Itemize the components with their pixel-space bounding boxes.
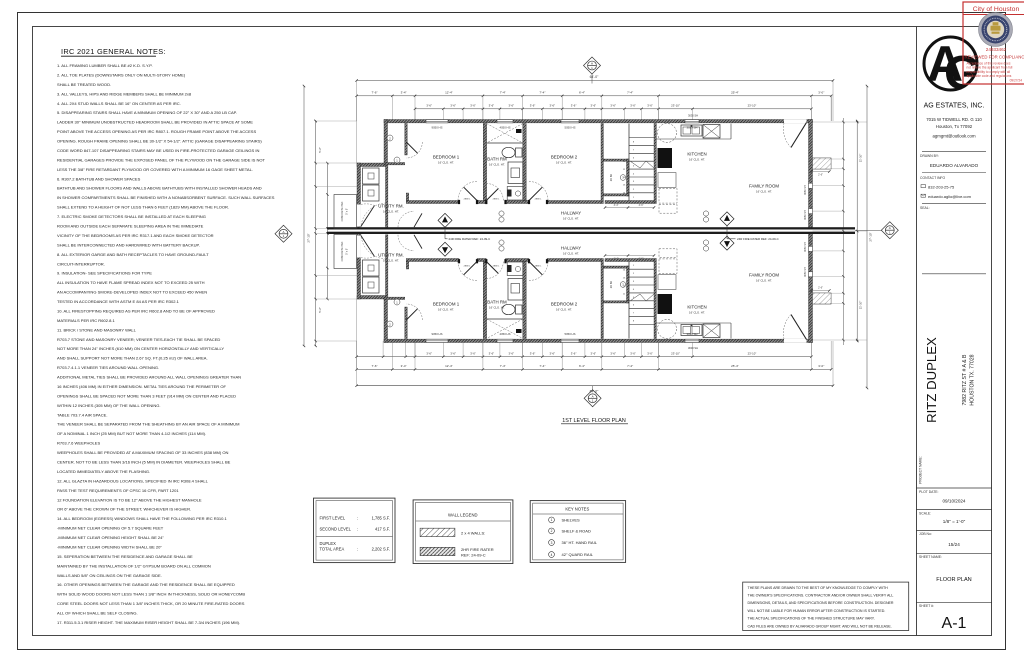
svg-text:R703.7 STONE AND MASONRY VENEE: R703.7 STONE AND MASONRY VENEER; VENEER … (57, 337, 220, 342)
svg-text:2R 6R: 2R 6R (609, 174, 613, 181)
svg-text:MAINTAINED BY THE INSTALLATION: MAINTAINED BY THE INSTALLATION OF 1/2" G… (57, 563, 211, 568)
svg-text:R703.7.4.1.1 VENEER TIES AROUN: R703.7.4.1.1 VENEER TIES AROUND WALL OPE… (57, 365, 159, 370)
svg-text:BEDROOM 2: BEDROOM 2 (551, 155, 578, 160)
svg-text:25'-4": 25'-4" (731, 91, 739, 95)
svg-text:3'-6": 3'-6" (508, 352, 514, 356)
svg-text:REF: 24-09-C: REF: 24-09-C (461, 552, 486, 557)
svg-text:HALLWAY: HALLWAY (561, 246, 581, 251)
svg-text:7'-4": 7'-4" (539, 91, 545, 95)
svg-text:2. ALL TOE PLATES (DOWNSTAIRS: 2. ALL TOE PLATES (DOWNSTAIRS ONLY ON MU… (57, 72, 186, 77)
svg-text:OF A NOMINAL 1 INCH (25 MM) BU: OF A NOMINAL 1 INCH (25 MM) BUT NOT MORE… (57, 431, 206, 436)
svg-text:16' CLG. HT.: 16' CLG. HT. (383, 259, 399, 263)
svg-text:3'-6": 3'-6" (647, 352, 653, 356)
svg-text:3: 3 (551, 541, 553, 545)
svg-text:23'-10": 23'-10" (748, 352, 757, 356)
svg-text:applicable code and regulation: applicable code and regulations (967, 74, 1012, 78)
svg-text:3'-6": 3'-6" (639, 204, 644, 207)
svg-text:27'-10": 27'-10" (869, 232, 873, 241)
svg-text:16' CLG. HT.: 16' CLG. HT. (438, 308, 454, 312)
svg-text:27'-10": 27'-10" (307, 233, 311, 242)
svg-text:5050 HS: 5050 HS (565, 332, 576, 336)
svg-text:25'-4": 25'-4" (731, 364, 739, 368)
svg-text:2868 L: 2868 L (535, 266, 542, 268)
svg-text:THE OWNER'S SPECIFICATIONS. CO: THE OWNER'S SPECIFICATIONS. CONTRACTOR A… (748, 594, 894, 598)
svg-text:2868 L: 2868 L (493, 266, 500, 268)
svg-text:7'-4": 7'-4" (500, 91, 506, 95)
svg-text:4050 HS: 4050 HS (500, 125, 511, 129)
svg-text:15. SEPERATION BETWEEN THE RES: 15. SEPERATION BETWEEN THE RESIDENCE AND… (57, 554, 193, 559)
svg-text:eduardo.aglio@live.com: eduardo.aglio@live.com (928, 194, 972, 199)
svg-text:BEDROOM 1: BEDROOM 1 (433, 155, 460, 160)
svg-text:23'-10": 23'-10" (671, 352, 680, 356)
svg-text:09/10/2024: 09/10/2024 (943, 499, 966, 504)
svg-text:3050 SH: 3050 SH (804, 242, 807, 252)
svg-text:15/24: 15/24 (948, 542, 960, 547)
svg-text:16' CLG. HT.: 16' CLG. HT. (756, 190, 772, 194)
svg-text:23'-10": 23'-10" (748, 104, 757, 108)
svg-text:SHALL BE INTERCONNECTED AND HA: SHALL BE INTERCONNECTED AND HARDWIRED WI… (57, 242, 200, 247)
svg-text:A: A (592, 394, 594, 398)
svg-text:3'-6": 3'-6" (489, 104, 495, 108)
svg-text:16' CLG. HT.: 16' CLG. HT. (489, 163, 505, 167)
svg-text:JOB No:: JOB No: (919, 532, 932, 536)
svg-text:BATH RM: BATH RM (487, 157, 507, 162)
svg-text:5'-2": 5'-2" (318, 147, 322, 153)
svg-text:16 INCHES (406 MM) IN EITHER D: 16 INCHES (406 MM) IN EITHER DIMENSION. … (57, 384, 226, 389)
svg-text:2: 2 (551, 529, 553, 533)
svg-text:3'-6": 3'-6" (571, 104, 577, 108)
svg-text:City of Houston: City of Houston (973, 6, 1020, 13)
svg-text:3'-6": 3'-6" (571, 352, 577, 356)
svg-text:1ST LEVEL FLOOR PLAN: 1ST LEVEL FLOOR PLAN (562, 418, 626, 424)
svg-text:1. ALL FRAMING LUMBER SHALL BE: 1. ALL FRAMING LUMBER SHALL BE #2 K.D. S… (57, 63, 153, 68)
svg-text:3'-6": 3'-6" (450, 352, 456, 356)
svg-text:3. ALL VALLEYS, HIPS AND RIDGE: 3. ALL VALLEYS, HIPS AND RIDGE MEMBERS S… (57, 91, 192, 96)
svg-text:AG ESTATES, INC.: AG ESTATES, INC. (924, 103, 985, 110)
svg-text:2 x 4 WALLS:: 2 x 4 WALLS: (461, 531, 485, 536)
svg-text:ALL INSULATION TO HAVE FLAME S: ALL INSULATION TO HAVE FLAME SPREAD INDE… (57, 280, 205, 285)
svg-text:-MINIMUM NET CLEAR OPENING HEI: -MINIMUM NET CLEAR OPENING HEIGHT SHALL … (57, 535, 164, 540)
svg-text:PASS THE TEST REQUIREMENTS OF: PASS THE TEST REQUIREMENTS OF CPSC 16 CF… (57, 488, 179, 493)
svg-text:ALL OF WHICH SHALL BE SELF CLO: ALL OF WHICH SHALL BE SELF CLOSING. (57, 611, 138, 616)
svg-text:DIMENSIONS, DETAILS, AND SPECI: DIMENSIONS, DETAILS, AND SPECIFICATIONS … (748, 601, 894, 605)
svg-text:2,202 S.F.: 2,202 S.F. (372, 547, 390, 552)
svg-text:SHALL BE TREATED WOOD.: SHALL BE TREATED WOOD. (57, 82, 111, 87)
svg-text:2868 L: 2868 L (464, 199, 471, 201)
svg-text:3'-6": 3'-6" (550, 104, 556, 108)
svg-text:10. ALL FIRESTOPPING REQUIRED: 10. ALL FIRESTOPPING REQUIRED AS PER IRC… (57, 308, 215, 313)
svg-text:3'-6": 3'-6" (489, 352, 495, 356)
svg-text:SHEET NAME:: SHEET NAME: (919, 555, 942, 559)
svg-text:LOCATED IMMEDIATELY ABOVE THE: LOCATED IMMEDIATELY ABOVE THE FLASHING. (57, 469, 150, 474)
svg-text:CODE WORD 847-107 DISAPPEARING: CODE WORD 847-107 DISAPPEARING STAIRS MA… (57, 148, 259, 153)
svg-text:THE VENEER SHALL BE SEPARATED: THE VENEER SHALL BE SEPARATED FROM THE S… (57, 422, 240, 427)
svg-text:Houston, Tx 77092: Houston, Tx 77092 (936, 124, 973, 129)
svg-text:36" HT. HAND RAIL: 36" HT. HAND RAIL (562, 540, 598, 545)
svg-text:ROOM AND OUTSIDE EACH SEPARATE: ROOM AND OUTSIDE EACH SEPARATE SLEEPING … (57, 223, 204, 228)
svg-text:11. BRICK / STONE AND MASONRY: 11. BRICK / STONE AND MASONRY WALL (57, 327, 137, 332)
svg-text:3'-6": 3'-6" (426, 352, 432, 356)
svg-text:CONCRETE PAD: CONCRETE PAD (341, 201, 344, 221)
svg-text:-MINIMUM NET CLEAR OPENING WID: -MINIMUM NET CLEAR OPENING WIDTH SHALL B… (57, 544, 162, 549)
svg-text:5' x 5': 5' x 5' (346, 208, 349, 215)
svg-text:7. ELECTRIC SMOKE DETECTORS SH: 7. ELECTRIC SMOKE DETECTORS SHALL BE INS… (57, 214, 206, 219)
svg-text:24R FIRE RATER REF: 24-09-C: 24R FIRE RATER REF: 24-09-C (737, 237, 779, 241)
svg-text:3'-6": 3'-6" (426, 104, 432, 108)
svg-text:4050 HS: 4050 HS (500, 332, 511, 336)
svg-text:CIRCUIT-INTERRUPTOR.: CIRCUIT-INTERRUPTOR. (57, 261, 105, 266)
svg-text:OR 6" ABOVE THE CROWN OF THE S: OR 6" ABOVE THE CROWN OF THE STREET, WHI… (57, 507, 191, 512)
svg-text:7'-6": 7'-6" (371, 364, 377, 368)
svg-text:7'-4": 7'-4" (539, 364, 545, 368)
svg-text:12 FOUNDATION ELEVATION IS TO: 12 FOUNDATION ELEVATION IS TO BE 12" ABO… (57, 497, 202, 502)
svg-text:THESE PLANS ARE DRAWN TO THE B: THESE PLANS ARE DRAWN TO THE BEST OF MY … (748, 586, 889, 590)
svg-text:FAMILY ROOM: FAMILY ROOM (749, 273, 779, 278)
svg-text:CONTACT INFO: CONTACT INFO (920, 176, 945, 180)
svg-text:OPENINGS SHALL BE SPACED NOT M: OPENINGS SHALL BE SPACED NOT MORE THAN 3… (57, 393, 236, 398)
svg-text:ADDITIONAL METAL TIES SHALL BE: ADDITIONAL METAL TIES SHALL BE PROVIDED … (57, 375, 241, 380)
svg-text:12'-4": 12'-4" (445, 364, 453, 368)
svg-text:3'-0": 3'-0" (818, 91, 824, 95)
svg-text:A: A (282, 230, 284, 234)
svg-text:3'-6": 3'-6" (630, 104, 636, 108)
svg-text:16' CLG. HT.: 16' CLG. HT. (556, 308, 572, 312)
svg-text:KEY NOTES: KEY NOTES (565, 506, 589, 511)
svg-text:SEAL:: SEAL: (920, 206, 930, 210)
svg-text:EDUARDO ALVARADO: EDUARDO ALVARADO (930, 163, 979, 168)
svg-text:24933462: 24933462 (986, 47, 1007, 52)
svg-text:3030 SH: 3030 SH (688, 346, 698, 350)
svg-text:3'-6": 3'-6" (508, 104, 514, 108)
svg-text:3'-6": 3'-6" (639, 258, 644, 261)
svg-text:WEEPHOLES SHALL BE PROVIDED AT: WEEPHOLES SHALL BE PROVIDED AT A MAXIMUM… (57, 450, 229, 455)
svg-text:3'-6": 3'-6" (610, 104, 616, 108)
svg-text:2HR FIRE RATER: 2HR FIRE RATER (461, 547, 494, 552)
svg-text:FLOOR PLAN: FLOOR PLAN (936, 577, 971, 583)
svg-text:RESIDENTIAL GARAGES PROVIDE TH: RESIDENTIAL GARAGES PROVIDE THE EXPOSED … (57, 157, 266, 162)
svg-text:14. ALL BEDROOM (EGRESS) WINDO: 14. ALL BEDROOM (EGRESS) WINDOWS SHALL H… (57, 516, 228, 521)
svg-text:POINT ABOVE THE ACCESS OPENING: POINT ABOVE THE ACCESS OPENING AS PER IR… (57, 129, 256, 134)
svg-text:agmgmt@outlook.com: agmgmt@outlook.com (932, 133, 975, 138)
svg-text:SHALL EXTEND TO A HEIGHT OF NO: SHALL EXTEND TO A HEIGHT OF NOT LESS THA… (57, 205, 229, 210)
svg-text:2R 6R: 2R 6R (609, 281, 613, 288)
svg-text:THE ACTUAL SPECIFICATIONS OF T: THE ACTUAL SPECIFICATIONS OF THE FINISHE… (748, 617, 875, 621)
svg-text:3'-6": 3'-6" (591, 352, 597, 356)
svg-text:LESS THE 3/8" FIRE RETARDANT P: LESS THE 3/8" FIRE RETARDANT PLYWOOD OR … (57, 167, 253, 172)
svg-text:7'-6": 7'-6" (371, 91, 377, 95)
svg-text:23'-10": 23'-10" (671, 104, 680, 108)
svg-text:4. ALL 2X4 STUD WALLS SHALL BE: 4. ALL 2X4 STUD WALLS SHALL BE 16" ON CE… (57, 101, 181, 106)
svg-text:3050 SH: 3050 SH (804, 267, 807, 277)
svg-text:UTILITY RM.: UTILITY RM. (378, 253, 404, 258)
svg-text:3'-6": 3'-6" (630, 352, 636, 356)
svg-text:KITCHEN: KITCHEN (687, 152, 706, 157)
svg-text:4: 4 (551, 553, 553, 557)
svg-text:2'-6": 2'-6" (818, 173, 823, 176)
svg-text:11'-10": 11'-10" (859, 301, 863, 309)
svg-text:2868 L: 2868 L (535, 199, 542, 201)
svg-text:RITZ DUPLEX: RITZ DUPLEX (924, 337, 939, 423)
svg-text:3'-4": 3'-4" (401, 364, 407, 368)
svg-text:3'-4": 3'-4" (614, 204, 619, 207)
svg-text:REVIEWED FOR COMPLIANCE: REVIEWED FOR COMPLIANCE (965, 54, 1024, 59)
svg-text:16' CLG. HT.: 16' CLG. HT. (689, 158, 705, 162)
svg-text:WITH SOLID WOOD DOORS NOT LESS: WITH SOLID WOOD DOORS NOT LESS THAN 1 3/… (57, 592, 245, 597)
svg-text::: : (357, 527, 358, 532)
svg-text:9050 HS: 9050 HS (432, 125, 443, 129)
svg-text:3'-6": 3'-6" (530, 104, 536, 108)
svg-text:3030 SH: 3030 SH (688, 114, 698, 118)
svg-text:5' x 5': 5' x 5' (346, 248, 349, 255)
svg-text:WITHIN 12 INCHES (305 MM) OF T: WITHIN 12 INCHES (305 MM) OF THE WALL OP… (57, 403, 161, 408)
svg-text:3'-4": 3'-4" (614, 258, 619, 261)
svg-text:3'-0": 3'-0" (818, 364, 824, 368)
svg-text:16' CLG. HT.: 16' CLG. HT. (383, 210, 399, 214)
svg-text:5050 HS: 5050 HS (565, 125, 576, 129)
svg-text:3'-6": 3'-6" (470, 352, 476, 356)
svg-text:24R FIRE RATER REF: 24-09-C: 24R FIRE RATER REF: 24-09-C (449, 237, 491, 241)
svg-text:16' CLG. HT.: 16' CLG. HT. (556, 161, 572, 165)
svg-text:BATHTUB AND SHOWER FLOORS AND: BATHTUB AND SHOWER FLOORS AND WALLS ABOV… (57, 186, 262, 191)
svg-text:7'-4": 7'-4" (627, 91, 633, 95)
svg-text:16' CLG. HT.: 16' CLG. HT. (563, 252, 579, 256)
svg-text:R703.7.6 WEEPHOLES: R703.7.6 WEEPHOLES (57, 441, 100, 446)
svg-text:3050 SH: 3050 SH (804, 210, 807, 220)
svg-text:UTILITY RM.: UTILITY RM. (378, 204, 404, 209)
svg-text:DUPLEX: DUPLEX (320, 541, 337, 546)
svg-text:6. R307.2 BATHTUB AND SHOWER S: 6. R307.2 BATHTUB AND SHOWER SPACES (57, 176, 141, 181)
svg-text:2868 L: 2868 L (493, 199, 500, 201)
svg-text:FAMILY ROOM: FAMILY ROOM (749, 184, 779, 189)
svg-text:CONCRETE PAD: CONCRETE PAD (341, 241, 344, 261)
svg-text:417 S.F.: 417 S.F. (375, 527, 390, 532)
svg-text:SHEET #:: SHEET #: (919, 604, 934, 608)
svg-text:WALLS AND 5/8" ON CEILINGS ON: WALLS AND 5/8" ON CEILINGS ON THE GARAGE… (57, 573, 162, 578)
svg-text:AND SHALL SUPPORT NOT MORE THA: AND SHALL SUPPORT NOT MORE THAN 2.67 SQ.… (57, 356, 208, 361)
svg-text:16' CLG. HT.: 16' CLG. HT. (438, 161, 454, 165)
svg-text:64'-0": 64'-0" (590, 75, 599, 79)
svg-text:A: A (591, 62, 593, 66)
svg-text:KITCHEN: KITCHEN (687, 305, 706, 310)
svg-text:16' CLG. HT.: 16' CLG. HT. (563, 217, 579, 221)
svg-text:TESTED IN ACCORDANCE WITH ASTM: TESTED IN ACCORDANCE WITH ASTM E 84 AS P… (57, 299, 180, 304)
svg-text:IRC 2021 GENERAL NOTES:: IRC 2021 GENERAL NOTES: (61, 47, 166, 56)
svg-text:16. OTHER OPENINGS BETWEEN THE: 16. OTHER OPENINGS BETWEEN THE GARAGE AN… (57, 582, 235, 587)
svg-text:6'-4": 6'-4" (579, 91, 585, 95)
svg-text:IN SHOWER COMPARTMENTS SHALL B: IN SHOWER COMPARTMENTS SHALL BE FINISHED… (57, 195, 275, 200)
svg-text:-MINIMUM NET CLEAR OPENING OF: -MINIMUM NET CLEAR OPENING OF 5.7 SQUARE… (57, 526, 164, 531)
svg-text:HOUSTON TX. 77028: HOUSTON TX. 77028 (970, 354, 976, 405)
svg-text:9. INSULATION- SEE SPECIFICATI: 9. INSULATION- SEE SPECIFICATIONS FOR TY… (57, 271, 152, 276)
svg-text:MATERIALS PER IRC R602.8.1: MATERIALS PER IRC R602.8.1 (57, 318, 115, 323)
svg-text:09/27/24: 09/27/24 (1010, 79, 1023, 83)
svg-text:6'-4": 6'-4" (579, 364, 585, 368)
svg-text:TOTAL AREA: TOTAL AREA (320, 547, 345, 552)
svg-text:CENTER. NOT TO BE LESS THAN 3/: CENTER. NOT TO BE LESS THAN 3/16 INCH (5… (57, 460, 231, 465)
svg-text:42" QUARD RAIL: 42" QUARD RAIL (562, 552, 594, 557)
svg-text:17. R311.5.3.1 RISER HEIGHT. T: 17. R311.5.3.1 RISER HEIGHT. THE MAXIMUM… (57, 620, 240, 625)
svg-text:1,785 S.F.: 1,785 S.F. (372, 516, 390, 521)
svg-text:12'-4": 12'-4" (445, 91, 453, 95)
svg-text:SHELF & ROAD: SHELF & ROAD (562, 528, 591, 533)
svg-text:2'-6": 2'-6" (818, 286, 823, 289)
svg-text:LADDER 30" MINIMUM UNOBSTRUCTE: LADDER 30" MINIMUM UNOBSTRUCTED HEADROOM… (57, 120, 253, 125)
svg-text:VICINITY OF THE BEDROOMS AS PE: VICINITY OF THE BEDROOMS AS PER IRC R317… (57, 233, 214, 238)
svg-text:9050 HS: 9050 HS (432, 332, 443, 336)
svg-text:7'-4": 7'-4" (500, 364, 506, 368)
svg-text:7'-4": 7'-4" (627, 364, 633, 368)
svg-text:16' CLG. HT.: 16' CLG. HT. (756, 279, 772, 283)
svg-text:CORE STEEL DOORS NOT LESS THAN: CORE STEEL DOORS NOT LESS THAN 1 3/8" IN… (57, 601, 245, 606)
svg-text:HALLWAY: HALLWAY (561, 211, 581, 216)
svg-text:7982 RITZ ST # A & B: 7982 RITZ ST # A & B (962, 354, 968, 405)
svg-text:A: A (889, 226, 891, 230)
svg-text:2868 L: 2868 L (464, 266, 471, 268)
svg-text::: : (357, 516, 358, 521)
svg-text:PROJECT NAME:: PROJECT NAME: (919, 456, 923, 484)
svg-text:16' CLG. HT.: 16' CLG. HT. (689, 311, 705, 315)
svg-text:1: 1 (551, 518, 553, 522)
svg-text:3'-6": 3'-6" (530, 352, 536, 356)
svg-text:3'-4": 3'-4" (401, 91, 407, 95)
svg-text:3050 SH: 3050 SH (804, 185, 807, 195)
svg-text:DRAWN BY:: DRAWN BY: (920, 154, 939, 158)
svg-text:832-203-25-75: 832-203-25-75 (928, 184, 955, 189)
svg-text:OPENING. ROUGH FRAME OPENING S: OPENING. ROUGH FRAME OPENING SHALL BE 30… (57, 139, 262, 144)
svg-text:11'-10": 11'-10" (859, 154, 863, 162)
svg-text:3'-6": 3'-6" (610, 352, 616, 356)
svg-text:3'-6": 3'-6" (450, 104, 456, 108)
svg-text:1/8" = 1'-0": 1/8" = 1'-0" (943, 519, 966, 524)
svg-text:SHELVES: SHELVES (562, 517, 580, 522)
svg-text:5. DISAPPEARING STAIRS SHALL H: 5. DISAPPEARING STAIRS SHALL HAVE A MINI… (57, 110, 237, 115)
svg-text:NOT MORE THAN 24" INCHES (610: NOT MORE THAN 24" INCHES (610 MM) ON CEN… (57, 346, 224, 351)
svg-text:TABLE 703.7.4 AIR SPACE.: TABLE 703.7.4 AIR SPACE. (57, 412, 107, 417)
svg-text:7015 W TIDWELL RD. G 110: 7015 W TIDWELL RD. G 110 (926, 117, 982, 122)
svg-text:5'-2": 5'-2" (318, 307, 322, 313)
svg-text:BEDROOM 1: BEDROOM 1 (433, 302, 460, 307)
svg-text:FIRST LEVEL: FIRST LEVEL (320, 516, 346, 521)
svg-text:3'-6": 3'-6" (550, 352, 556, 356)
svg-text:3'-6": 3'-6" (591, 104, 597, 108)
svg-text:AN ACCOMPANYING SMOKE-DEVELOPE: AN ACCOMPANYING SMOKE-DEVELOPED INDEX NO… (57, 290, 207, 295)
svg-text:8. ALL EXTERIOR GARGE AND BATH: 8. ALL EXTERIOR GARGE AND BATH RECEPTACL… (57, 252, 209, 257)
svg-text:3'-6": 3'-6" (470, 104, 476, 108)
svg-text:BATH RM: BATH RM (487, 300, 507, 305)
svg-text:A-1: A-1 (942, 615, 967, 632)
svg-text:WALL LEGEND: WALL LEGEND (448, 512, 477, 517)
svg-text:12. ALL GLAZTA IN HAZARDOUS LO: 12. ALL GLAZTA IN HAZARDOUS LOCATIONS, S… (57, 478, 209, 483)
svg-text::: : (357, 547, 358, 552)
svg-text:BEDROOM 2: BEDROOM 2 (551, 302, 578, 307)
svg-text:PLOT DATE:: PLOT DATE: (919, 490, 939, 494)
svg-text:WILL NOT BE LIABLE FOR HUMAN E: WILL NOT BE LIABLE FOR HUMAN ERROR AFTER… (748, 609, 886, 613)
svg-text:CAD FILES ARE OWNED BY ALVARAD: CAD FILES ARE OWNED BY ALVARADO GROUP MG… (748, 624, 892, 628)
svg-text:SECOND LEVEL: SECOND LEVEL (320, 527, 352, 532)
svg-text:SCALE:: SCALE: (919, 511, 931, 515)
svg-text:16' CLG. HT.: 16' CLG. HT. (489, 306, 505, 310)
svg-text:3'-6": 3'-6" (647, 104, 653, 108)
